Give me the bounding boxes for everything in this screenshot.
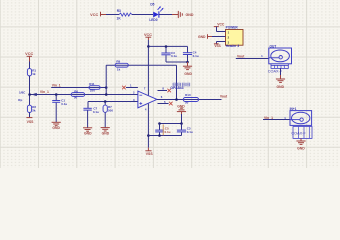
svg-text:0.1u: 0.1u (171, 54, 177, 58)
svg-text:R10: R10 (185, 93, 191, 97)
svg-text:GND: GND (184, 72, 192, 76)
svg-text:GND: GND (277, 85, 285, 89)
svg-text:Vout: Vout (220, 95, 228, 99)
svg-text:R9: R9 (116, 60, 120, 64)
svg-text:0.1u: 0.1u (193, 54, 199, 58)
svg-text:1K: 1K (117, 17, 122, 21)
svg-text:GND: GND (102, 131, 110, 135)
svg-text:250: 250 (90, 89, 95, 93)
svg-text:OUT: OUT (270, 45, 277, 49)
svg-text:Vin_1: Vin_1 (52, 83, 61, 87)
svg-text:VCC: VCC (90, 13, 98, 17)
svg-text:R3: R3 (117, 9, 121, 13)
svg-text:Rp: Rp (18, 98, 22, 102)
svg-text:VCC: VCC (25, 52, 33, 56)
svg-text:R6: R6 (74, 89, 78, 93)
svg-text:VSS: VSS (214, 44, 220, 48)
svg-text:0.1u: 0.1u (61, 102, 67, 106)
svg-text:GND: GND (297, 146, 305, 150)
svg-text:LED0: LED0 (149, 18, 157, 22)
svg-text:R11: R11 (89, 82, 95, 86)
svg-text:500: 500 (108, 109, 113, 113)
svg-text:Vin_1: Vin_1 (40, 90, 49, 94)
svg-text:2k: 2k (32, 109, 36, 113)
svg-text:POWER: POWER (226, 25, 239, 29)
svg-text:GND: GND (186, 13, 194, 17)
svg-text:VSS: VSS (27, 120, 35, 124)
svg-text:GND: GND (52, 126, 60, 130)
svg-text:VCC: VCC (144, 33, 152, 37)
svg-text:1k: 1k (32, 72, 36, 76)
svg-text:D5: D5 (150, 3, 154, 7)
svg-text:COAX-F: COAX-F (291, 132, 306, 136)
svg-text:VSS: VSS (146, 152, 154, 156)
svg-text:0.1u: 0.1u (93, 110, 99, 114)
svg-text:1/8C: 1/8C (19, 90, 26, 94)
svg-text:50: 50 (185, 100, 189, 104)
svg-text:Vout: Vout (237, 54, 245, 58)
svg-text:VCC: VCC (217, 22, 225, 26)
svg-text:1k: 1k (117, 67, 121, 71)
svg-text:0.1u: 0.1u (187, 130, 193, 134)
svg-text:OPA843: OPA843 (170, 86, 183, 90)
svg-text:GND: GND (84, 132, 92, 136)
svg-text:50: 50 (74, 96, 78, 100)
svg-text:GND: GND (198, 35, 206, 39)
svg-text:0.1u: 0.1u (165, 130, 171, 134)
